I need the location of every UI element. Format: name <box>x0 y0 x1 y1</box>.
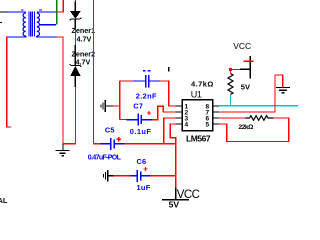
label C6 <box>137 157 147 166</box>
svg-text:5V: 5V <box>241 83 250 92</box>
transformer T1 <box>7 10 57 37</box>
svg-text:4.7V: 4.7V <box>77 35 92 44</box>
pin number 2 <box>185 110 189 117</box>
label AL (bottom left) <box>0 196 8 205</box>
pin 1 stub <box>176 105 182 107</box>
ground GND4 (top right) <box>276 88 290 93</box>
label 22kOhm <box>239 124 255 131</box>
svg-text:22kΩ: 22kΩ <box>239 124 255 131</box>
capacitor C7 leads left <box>120 118 127 120</box>
wire primary lead stub black lower <box>0 22 2 24</box>
power VCC (top) stem <box>240 56 250 79</box>
capacitor C7 body <box>126 114 152 126</box>
label Zener2 <box>72 50 96 59</box>
label C7 <box>133 102 143 111</box>
wire primary lead black from left edge <box>0 11 8 13</box>
svg-text:C5: C5 <box>105 126 115 135</box>
svg-text:5V: 5V <box>169 199 180 209</box>
wire cyan resistor bottom tick <box>230 95 232 106</box>
wire red GND3 to C6 <box>114 175 131 177</box>
wire red C5 to VCC rail <box>125 143 176 145</box>
label VCC (bottom) <box>177 189 200 201</box>
pin 7 stub <box>213 111 219 113</box>
svg-text:C6: C6 <box>137 157 147 166</box>
pin 2 stub <box>176 111 182 113</box>
resistor R1 5V vertical <box>228 74 233 95</box>
label 5V (resistor) <box>241 83 250 92</box>
label 5V (bottom) <box>169 199 180 209</box>
label 1uF <box>137 183 151 192</box>
wire red C6 to VCC rail <box>150 175 176 177</box>
ground GND2 sideways <box>101 100 114 112</box>
pin number 7 <box>206 110 210 117</box>
zener Zener1 <box>70 2 82 30</box>
label + (C6 polarity) <box>143 167 147 171</box>
svg-text:0.47uF-POL: 0.47uF-POL <box>88 154 122 161</box>
svg-text:2.2nF: 2.2nF <box>136 91 157 100</box>
wire cyan pin8 net <box>219 105 298 107</box>
label LM567 <box>186 134 211 144</box>
label 4.7V (Zener1) <box>77 35 92 44</box>
pin number 8 <box>206 104 210 111</box>
svg-text:VCC: VCC <box>233 41 251 51</box>
junction dot red <box>229 68 232 71</box>
wire red C7 to pin2 <box>152 106 176 119</box>
wire red pin6 to resistor 22k <box>219 117 245 119</box>
label 2.2nF <box>136 91 157 100</box>
label C5 <box>105 126 115 135</box>
wire red zener chain down to ground <box>63 87 76 144</box>
pin 4 stub <box>176 123 182 125</box>
wire red resistor top <box>231 69 241 73</box>
wire red 2.2nF right to pin1 <box>160 81 176 106</box>
pin 5 stub <box>213 123 219 125</box>
dash node stub above pin1 wire <box>168 67 170 72</box>
label U1 <box>191 90 202 100</box>
label 4.7kOhm <box>191 79 214 88</box>
capacitor C2 2.2nF leads <box>120 80 133 82</box>
wire red between zeners <box>74 29 76 45</box>
svg-text:AL: AL <box>0 196 8 205</box>
pin number 3 <box>185 116 189 123</box>
label 4.7V (Zener2) <box>76 58 91 67</box>
svg-text:VCC: VCC <box>177 189 200 201</box>
zener Zener2 <box>70 45 82 87</box>
label + (C7 polarity) <box>147 111 151 115</box>
svg-text:4.7kΩ: 4.7kΩ <box>191 79 214 88</box>
label 0.47uF-POL <box>88 154 122 161</box>
capacitor C2 2.2nF body <box>133 71 160 88</box>
op-amp U1 body (LM567 IC) <box>182 100 213 131</box>
label 0.1uF <box>130 127 152 136</box>
pin 3 stub <box>176 117 182 119</box>
zener D1 top red stub <box>74 0 76 2</box>
capacitor C5 body <box>101 138 125 150</box>
svg-text:5: 5 <box>206 122 210 129</box>
pin number 5 <box>206 122 210 129</box>
label Zener1 <box>72 26 96 35</box>
wire red 22k to pin5 loop <box>219 118 289 142</box>
power VCC (bottom) <box>162 188 189 200</box>
wire red top-right lead to top edge <box>57 0 64 12</box>
resistor R2 22k horizontal <box>245 116 273 121</box>
pin number 1 <box>185 104 189 111</box>
wire red bottom-right lead down rail <box>57 37 63 144</box>
capacitor C6 body <box>131 170 150 182</box>
ground GND3 sideways (C6) <box>103 170 113 182</box>
wire red GND2 to rail <box>114 105 120 107</box>
wire red rail x119.5 down from 2.2nF <box>119 81 121 119</box>
power VCC (top) red bar <box>244 60 254 62</box>
wire red bottom-left lead down <box>7 37 11 127</box>
label + (C5 polarity) <box>117 137 121 141</box>
svg-text:C7: C7 <box>133 102 143 111</box>
pin 8 stub <box>213 105 219 107</box>
pin number 4 <box>185 122 189 129</box>
ground GND1 <box>56 144 70 156</box>
svg-text:4: 4 <box>185 122 189 129</box>
svg-text:0.1uF: 0.1uF <box>130 127 152 136</box>
pin number 6 <box>206 116 210 123</box>
label VCC (top) <box>233 41 251 51</box>
svg-text:LM567: LM567 <box>186 134 211 144</box>
wire green center tap to top edge <box>56 0 58 25</box>
wire red rail left (to C5) <box>93 0 100 144</box>
wire red pin4 to VCC <box>170 124 176 188</box>
pin 6 stub <box>213 117 219 119</box>
svg-text:U1: U1 <box>191 90 202 100</box>
wire red pin7 to ground <box>219 75 283 112</box>
svg-text:1uF: 1uF <box>137 183 151 192</box>
wire red pin3 to C5 line <box>164 118 176 144</box>
